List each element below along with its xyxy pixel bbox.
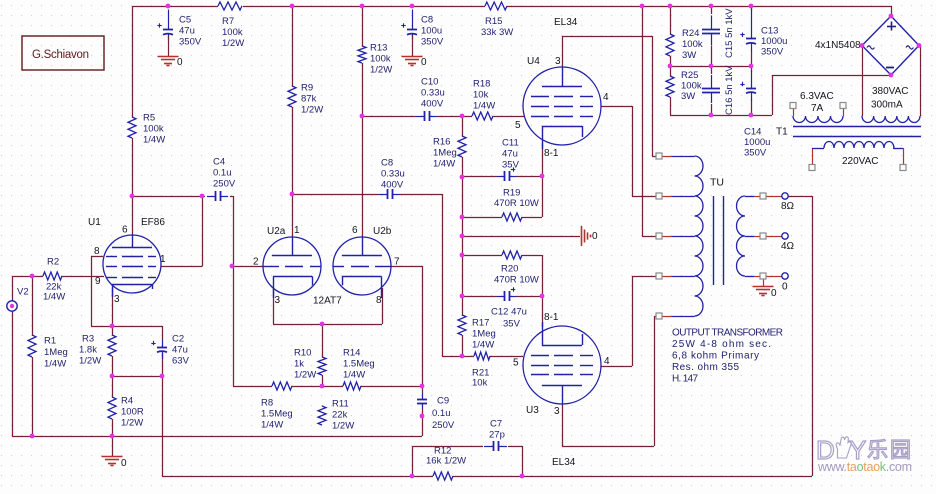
junction at (32,436) [30, 434, 35, 439]
junction at (202,196) [200, 194, 205, 199]
svg-text:G.Schiavon: G.Schiavon [32, 49, 89, 61]
svg-text:0: 0 [121, 458, 127, 469]
wire TU 0-tap ground stub [763, 279, 765, 286]
resistor R25 [666, 76, 674, 97]
op tube U1 EF86 [103, 235, 161, 293]
svg-text:1/4W: 1/4W [433, 158, 455, 169]
svg-text:9: 9 [95, 276, 101, 287]
wire feedback node down to bottom rail [162, 376, 164, 476]
svg-text:6: 6 [122, 224, 128, 235]
wire R13 column [362, 6, 364, 46]
resistor R9 [288, 86, 296, 107]
capacitor C9 [422, 393, 424, 399]
wire R4 ground stub [112, 436, 114, 456]
wire C15 column [711, 6, 713, 14]
svg-text:35V: 35V [502, 159, 520, 170]
triode U2a [263, 237, 321, 295]
svg-text:100k: 100k [370, 53, 391, 64]
junction at (422,386) [420, 384, 425, 389]
wire U1 pin8 loop [91, 256, 103, 258]
svg-text:6,8 kohm Primary: 6,8 kohm Primary [672, 351, 759, 362]
svg-text:4: 4 [603, 92, 609, 103]
wire R9 column [292, 6, 294, 86]
wire 6.3VAC stubs [793, 109, 795, 117]
svg-text:R4: R4 [121, 395, 133, 406]
junction at (642,6) [640, 4, 645, 9]
junction dots bridge [889, 14, 894, 19]
svg-text:R9: R9 [301, 82, 313, 93]
wire R12 C7 loop [412, 446, 414, 476]
wire C8b coupling row [292, 194, 379, 196]
wire left column R5 branch [132, 6, 134, 117]
svg-text:0: 0 [782, 281, 788, 292]
svg-text:16k 1/2W: 16k 1/2W [426, 455, 466, 466]
junction at (112,436) [110, 434, 115, 439]
wire C11 row [462, 176, 497, 178]
wire U4 screen to UL tap [601, 106, 632, 108]
svg-text:R18: R18 [473, 78, 490, 89]
svg-text:3: 3 [554, 406, 560, 417]
svg-text:EL34: EL34 [554, 17, 578, 28]
wire cathode node to C2 [112, 326, 162, 328]
svg-text:1.8k: 1.8k [79, 344, 97, 355]
svg-text:1Meg: 1Meg [433, 147, 457, 158]
resistor R19 [502, 213, 522, 221]
svg-text:1Meg: 1Meg [44, 347, 68, 358]
junction at (670,66) [668, 64, 673, 69]
ground right-facing 0 [581, 226, 583, 246]
svg-text:C16 5n 1kV: C16 5n 1kV [724, 65, 735, 115]
svg-text:C5: C5 [179, 14, 191, 25]
junction at (112,376) [110, 374, 115, 379]
svg-text:0.1u: 0.1u [213, 167, 232, 178]
svg-text:1/4W: 1/4W [44, 358, 66, 369]
junction at (292,6) [290, 4, 295, 9]
svg-text:0.33u: 0.33u [421, 87, 445, 98]
svg-text:C8: C8 [381, 157, 393, 168]
junction at (670,6) [668, 4, 673, 9]
svg-text:3: 3 [114, 294, 120, 305]
resistor R8 [272, 382, 292, 390]
svg-text:12AT7: 12AT7 [313, 295, 342, 306]
resistor R4 [108, 397, 116, 419]
svg-text:1k: 1k [294, 358, 304, 369]
junction at (112,326) [110, 324, 115, 329]
svg-text:1/4W: 1/4W [343, 369, 365, 380]
resistor R10 [318, 357, 326, 375]
svg-text:3: 3 [275, 295, 281, 306]
wire R20 row [462, 255, 502, 257]
svg-text:5: 5 [513, 357, 519, 368]
svg-text:63V: 63V [172, 355, 190, 366]
svg-text:R1: R1 [44, 335, 56, 346]
svg-text:1000u: 1000u [744, 137, 770, 148]
svg-text:3W: 3W [682, 50, 696, 61]
svg-text:1.5Meg: 1.5Meg [343, 358, 375, 369]
svg-text:R17: R17 [472, 317, 489, 328]
svg-text:R13: R13 [370, 42, 387, 53]
ground TU secondary [753, 286, 774, 288]
svg-text:www.taotaok.com: www.taotaok.com [817, 460, 912, 474]
svg-text:100R: 100R [121, 406, 144, 417]
svg-text:1Meg: 1Meg [472, 328, 496, 339]
wire B+ riser to TU center tap [642, 6, 644, 236]
watermark DIY logo [816, 435, 913, 465]
wire R10 column [322, 324, 324, 357]
svg-text:250V: 250V [213, 178, 236, 189]
wire R8 row [233, 386, 272, 388]
author box G.Schiavon [22, 36, 104, 70]
svg-text:100k: 100k [222, 27, 243, 38]
wire C2 bottom to feedback node [162, 353, 164, 376]
svg-text:350V: 350V [744, 147, 767, 158]
wire C4 junction stubs [202, 196, 205, 198]
svg-text:EL34: EL34 [552, 457, 576, 468]
junction at (462,296) [460, 294, 465, 299]
svg-text:8-1: 8-1 [544, 148, 559, 159]
svg-text:3: 3 [555, 56, 561, 67]
capacitor C15 [711, 16, 713, 30]
junction at (32,276) [30, 274, 35, 279]
wire C12 row [462, 296, 497, 298]
resistor R20 [502, 251, 522, 259]
wire feedback riser from 8ohm tap [812, 196, 814, 476]
svg-text:350V: 350V [421, 36, 444, 47]
svg-text:C4: C4 [213, 156, 225, 167]
svg-text:4x1N5408: 4x1N5408 [815, 40, 861, 51]
wire C9 leads [422, 386, 424, 393]
svg-text:100k: 100k [681, 80, 702, 91]
junction at (711,6) [709, 4, 714, 9]
svg-text:1/4W: 1/4W [472, 339, 494, 350]
svg-text:1/2W: 1/2W [222, 38, 244, 49]
wire V2 top lead [12, 276, 14, 299]
wire R19 row [462, 217, 502, 219]
TU output terminals [782, 193, 788, 199]
svg-text:0: 0 [771, 288, 777, 299]
svg-text:R2: R2 [47, 256, 59, 267]
wire TU primary stubs [662, 156, 672, 158]
bridge rectifier 4x1N5408 [862, 16, 919, 75]
svg-text:C12 47u: C12 47u [491, 306, 527, 317]
triode U2b [333, 237, 391, 295]
wire U3 anode loop [562, 404, 564, 446]
svg-text:47u: 47u [502, 148, 518, 159]
svg-text:C11: C11 [502, 137, 519, 148]
svg-text:8: 8 [376, 295, 382, 306]
wire U2a anode lead [292, 194, 294, 237]
wire U1 cathode [112, 288, 114, 335]
svg-text:100u: 100u [421, 25, 442, 36]
wire U2a pin2 stub [233, 266, 263, 268]
capacitor C8 filter [412, 10, 414, 30]
ground for R4 [102, 456, 123, 458]
wire U3 cathode [542, 296, 544, 327]
svg-text:0: 0 [592, 231, 598, 242]
svg-text:22k: 22k [332, 409, 348, 420]
junction at (412,6) [410, 4, 415, 9]
svg-text:C2: C2 [172, 333, 184, 344]
resistor R1 [28, 335, 36, 357]
svg-text:400V: 400V [381, 179, 404, 190]
wire ground bus [12, 436, 422, 438]
junction at (751,66) [749, 64, 754, 69]
svg-text:乐园: 乐园 [867, 439, 913, 462]
resistor R18 [472, 112, 493, 120]
wire C10 row [362, 116, 416, 118]
svg-text:C13: C13 [761, 25, 778, 36]
capacitor C2 [162, 339, 164, 347]
svg-text:470R 10W: 470R 10W [494, 274, 539, 285]
output transformer TU primary [695, 156, 704, 316]
ground for C8 [412, 36, 414, 56]
junction at (462,116) [460, 114, 465, 119]
junction at (542,176) [540, 174, 545, 179]
power tube U3 EL34 [523, 326, 601, 404]
wire U4 cathode [542, 143, 544, 176]
svg-text:350V: 350V [179, 36, 202, 47]
svg-text:1000u: 1000u [761, 36, 787, 47]
junction at (462,236) [460, 234, 465, 239]
svg-text:0.1u: 0.1u [432, 408, 451, 419]
ground for C5 [168, 36, 170, 56]
input source V2 [7, 301, 17, 311]
wire TU secondary stubs [754, 196, 760, 198]
wire bus corner down to bridge + [891, 6, 893, 16]
svg-text:1/2W: 1/2W [301, 104, 323, 115]
resistor R15 [485, 2, 507, 10]
svg-text:U1: U1 [88, 217, 101, 228]
junction at (462,356) [460, 354, 465, 359]
svg-text:R5: R5 [143, 112, 155, 123]
capacitor C8b coupling [379, 194, 387, 196]
svg-text:350V: 350V [761, 46, 784, 57]
svg-text:47u: 47u [172, 344, 188, 355]
wire U2b cathode leg [382, 288, 384, 324]
svg-text:U2b: U2b [373, 226, 392, 237]
svg-text:C10: C10 [421, 76, 438, 87]
svg-text:C9: C9 [437, 395, 449, 406]
svg-text:380VAC: 380VAC [872, 86, 909, 97]
svg-text:1/2W: 1/2W [79, 355, 101, 366]
wire U2b grid to C9 column [391, 266, 422, 268]
junction at (412,476) [410, 474, 415, 479]
svg-text:25W 4-8 ohm sec.: 25W 4-8 ohm sec. [672, 339, 771, 350]
wire bottom feedback rail left [162, 476, 433, 478]
svg-text:1/2W: 1/2W [332, 420, 354, 431]
junction at (362,116) [360, 114, 365, 119]
junction at (292,194) [290, 192, 295, 197]
capacitor C16 [711, 75, 713, 88]
svg-text:T1: T1 [776, 126, 788, 137]
junction at (751,6) [749, 4, 754, 9]
svg-text:1/2W: 1/2W [121, 417, 143, 428]
wire U2b anode lead [362, 116, 364, 237]
junction at (322,386) [320, 384, 325, 389]
wire bias rail x462 [462, 116, 464, 136]
svg-text:1/2W: 1/2W [294, 369, 316, 380]
svg-text:33k 3W: 33k 3W [481, 27, 513, 38]
junction at (522,476) [520, 474, 525, 479]
svg-text:Res. ohm 355: Res. ohm 355 [672, 362, 739, 373]
capacitor C5 [168, 10, 170, 30]
wire V2 bottom lead [12, 313, 14, 436]
svg-text:R15: R15 [485, 16, 502, 27]
junction at (542,296) [540, 294, 545, 299]
resistor R16 [458, 136, 466, 157]
resistor R21 [474, 352, 490, 360]
junction at (462,177) [460, 175, 465, 180]
resistor R12 [433, 472, 453, 480]
svg-text:R16: R16 [433, 136, 450, 147]
TU core [713, 196, 715, 285]
capacitor C7 [484, 446, 493, 448]
svg-text:C15 5n 1kV: C15 5n 1kV [724, 8, 735, 58]
resistor R24 [666, 34, 674, 56]
svg-text:R25: R25 [681, 70, 698, 81]
svg-text:OUTPUT TRANSFORMER: OUTPUT TRANSFORMER [672, 327, 783, 338]
svg-text:3W: 3W [681, 91, 695, 102]
svg-text:8: 8 [94, 246, 100, 257]
svg-text:R10: R10 [294, 347, 311, 358]
svg-text:0: 0 [177, 57, 183, 68]
wire screen cap rail y66 [670, 66, 751, 68]
mains transformer T1 6.3VAC winding [790, 103, 796, 109]
svg-text:400V: 400V [421, 98, 444, 109]
svg-text:TU: TU [710, 177, 724, 189]
junction at (751,115) [749, 113, 754, 118]
svg-text:C14: C14 [744, 126, 761, 137]
junction at (168,6) [166, 4, 171, 9]
junction at (162,376) [160, 374, 165, 379]
svg-text:100k: 100k [682, 39, 703, 50]
T1 core [793, 126, 921, 128]
svg-text:4Ω: 4Ω [781, 241, 795, 252]
wire C13 column [751, 6, 753, 10]
svg-text:250V: 250V [432, 420, 455, 431]
resistor R5 [128, 117, 136, 138]
svg-text:EF86: EF86 [141, 217, 165, 228]
svg-text:100k: 100k [143, 123, 164, 134]
resistor R3 [108, 335, 116, 356]
svg-text:1/4W: 1/4W [143, 134, 165, 145]
resistor R14 [343, 382, 361, 390]
svg-text:1/2W: 1/2W [370, 64, 392, 75]
junction at (232,266) [230, 264, 235, 269]
wire C4 to U2a grid [233, 196, 235, 386]
svg-text:R14: R14 [343, 347, 360, 358]
svg-text:R19: R19 [503, 187, 520, 198]
resistor R13 [358, 46, 366, 63]
TU secondary pads [760, 193, 766, 199]
capacitor C4 [207, 196, 215, 198]
resistor R17 [458, 315, 466, 335]
junction at (462,255) [460, 253, 465, 258]
resistor R7 [218, 2, 242, 10]
svg-text:0: 0 [421, 57, 427, 68]
wire R18 to U4 pin5 [493, 116, 524, 118]
svg-text:C7: C7 [490, 418, 502, 429]
svg-text:35V: 35V [503, 318, 521, 329]
svg-text:V2: V2 [17, 286, 29, 297]
wire bottom rail right of R12 [453, 476, 812, 478]
svg-text:7A: 7A [811, 103, 824, 114]
svg-text:1.5Meg: 1.5Meg [261, 408, 293, 419]
capacitor C12 [497, 296, 504, 298]
svg-text:1/4W: 1/4W [261, 419, 283, 430]
svg-text:2: 2 [253, 256, 259, 267]
wire U2a cathode leg [273, 288, 275, 324]
svg-text:R3: R3 [82, 333, 94, 344]
svg-text:5: 5 [515, 120, 521, 131]
capacitor C13 [751, 8, 753, 39]
power tube U4 EL34 [523, 67, 601, 145]
svg-text:10k: 10k [472, 377, 488, 388]
resistor R2 [43, 272, 62, 280]
svg-text:8-1: 8-1 [544, 312, 559, 323]
wire input to R2 and U1 pin9 [12, 276, 43, 278]
svg-text:R8: R8 [261, 397, 273, 408]
wire top B+ bus left segment [132, 6, 218, 8]
svg-text:1: 1 [294, 225, 300, 236]
output transformer TU secondary [737, 196, 746, 276]
junction at (422,416) [420, 414, 425, 419]
svg-text:R24: R24 [682, 28, 699, 39]
svg-text:C8: C8 [421, 14, 433, 25]
wire cathode join row [273, 324, 382, 326]
capacitor C10 [416, 116, 424, 118]
svg-text:4: 4 [604, 356, 610, 367]
wire R21 to U3 pin5 [490, 356, 523, 358]
junction at (322,324) [320, 322, 325, 327]
wire C16 column [711, 66, 713, 74]
resistor R11 [318, 406, 326, 425]
wire bridge to 380VAC winding [862, 46, 864, 117]
svg-text:87k: 87k [301, 93, 317, 104]
svg-text:U4: U4 [527, 56, 540, 67]
svg-text:0.33u: 0.33u [381, 168, 405, 179]
mains transformer T1 380VAC winding [862, 116, 920, 123]
svg-text:47u: 47u [179, 25, 195, 36]
svg-text:R20: R20 [501, 263, 518, 274]
svg-text:H. 147: H. 147 [672, 374, 698, 385]
wire ground stub right [462, 236, 580, 238]
svg-text:470R 10W: 470R 10W [494, 198, 539, 209]
svg-text:6: 6 [352, 225, 358, 236]
svg-text:R7: R7 [222, 16, 234, 27]
wire C14 column [751, 66, 753, 72]
wire R1 column [32, 276, 34, 335]
wire U1 anode to C4 [161, 266, 202, 268]
mains transformer T1 220VAC winding [824, 142, 894, 149]
svg-text:1: 1 [160, 254, 166, 265]
junction at (132,196) [130, 194, 135, 199]
svg-text:R11: R11 [332, 398, 349, 409]
svg-text:8Ω: 8Ω [781, 201, 795, 212]
TU primary pads [656, 153, 662, 159]
capacitor C11 [497, 176, 504, 178]
capacitor C14 [751, 71, 753, 88]
wire U3 screen to UL tap [601, 366, 632, 368]
svg-text:1/4W: 1/4W [43, 291, 65, 302]
svg-text:220VAC: 220VAC [842, 156, 879, 167]
wire R24 R25 column [670, 6, 672, 34]
wire U1 screen node row [132, 196, 202, 198]
junction at (711,66) [709, 64, 714, 69]
wire top bus right segment [507, 6, 891, 8]
wire 220VAC stubs [812, 148, 814, 165]
junction at (711,115) [709, 113, 714, 118]
